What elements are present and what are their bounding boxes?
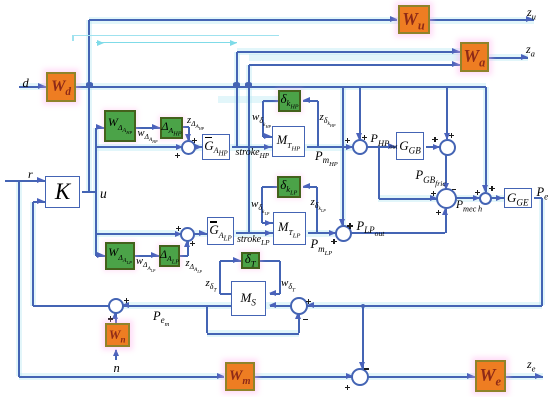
- wire: z_Delta_AHP from Delta_AHP into HP actuator sum: [183, 126, 189, 128]
- label z_Delta_AHP: [187, 116, 204, 130]
- weight W_u (orange): [398, 5, 430, 34]
- wire: d input into W_d: [19, 86, 46, 88]
- wire: W_d drop to gearbox sum (x=447.3): [446, 87, 448, 140]
- wire: W_d drop to HP output sum (x=359.5): [359, 87, 361, 140]
- wire: W_a input 1 y=51.5: [237, 51, 460, 53]
- white block G_GE (generator): [504, 188, 532, 209]
- wire: G_GB output into gearbox sum: [426, 146, 441, 148]
- wire: P_HPout from sum to G_GB: [366, 146, 397, 148]
- white block G_AHP (HP actuator model): [202, 134, 230, 160]
- label P_HPout: [371, 132, 398, 147]
- label z_deltaT: [206, 278, 217, 291]
- wire: W_d drop to LP output sum (x=343): [342, 87, 344, 226]
- wire: LP actuator sum to G_ALP: [193, 233, 207, 235]
- white block M_THP (HP torque map): [272, 126, 305, 157]
- label z_a: [526, 43, 535, 55]
- wire: W_Delta_AHP to Delta_AHP: [136, 127, 160, 129]
- wire glow bands (decorative): [89, 17, 534, 24]
- label P_LPout: [357, 220, 385, 234]
- wire: stroke_LP tap vertical x=248.6: [248, 65, 250, 233]
- uncertainty weight W_Delta_ALP (green): [105, 242, 135, 270]
- label n: [114, 362, 120, 375]
- wire: u into LP actuator sum y=234.3: [96, 233, 183, 235]
- wire: W_u input line y=20: [89, 19, 397, 21]
- white block M_S (shaft dynamics): [231, 281, 266, 316]
- wire: error sum to W_e: [367, 376, 475, 378]
- wire: branch into W_Delta_AHP y=127.5: [96, 127, 104, 129]
- white block G_GB (gearbox friction): [396, 132, 424, 160]
- vertical wire glow bands (decorative): [16, 181, 22, 376]
- wire: n input into W_n: [115, 350, 117, 361]
- label w_delta_kLP: [251, 199, 269, 214]
- label P_mHP: [315, 150, 338, 165]
- wire: W_a input 2 y=65: [249, 64, 460, 66]
- label P_mech: [456, 200, 482, 212]
- label P_em: [153, 310, 169, 325]
- wire: z_deltaT from M_S up into delta_T: [220, 293, 231, 295]
- label P_GBfric: [416, 169, 446, 183]
- label z_Delta_ALP: [186, 259, 202, 273]
- wire: stroke_HP tap vertical x=236.8: [236, 52, 238, 148]
- sum: shaft power balance sum: [290, 297, 308, 315]
- wire: z_deltakLP tap from P_mLP up into delta_kLP: [316, 187, 318, 233]
- label w_delta_kHP: [252, 112, 271, 127]
- wire: stroke_HP from G_AHP to M_THP: [232, 146, 272, 148]
- label w_Delta_AHP: [138, 129, 158, 143]
- label z_e: [527, 358, 536, 370]
- wire: z_e output from W_e: [506, 376, 543, 378]
- label z_u: [527, 6, 536, 18]
- label w_deltaT: [281, 278, 295, 291]
- weight W_e (orange): [475, 360, 506, 392]
- weight W_n (orange): [105, 323, 130, 348]
- white block M_TLP (LP torque map): [273, 212, 306, 245]
- sum: gearbox friction sum: [439, 139, 456, 156]
- sum: measurement noise sum: [108, 298, 124, 314]
- wire: z_a output from W_a: [489, 57, 528, 59]
- wire: P_em measured output from M_S to noise sum: [122, 305, 231, 307]
- label stroke_HP: [236, 148, 270, 158]
- wire: P_mech sum to small sum: [455, 197, 481, 199]
- wire: u into HP actuator sum y=147.3: [96, 146, 184, 148]
- controller K: [45, 176, 80, 208]
- wire: r reference input into K: [5, 180, 45, 182]
- sum: HP actuator input sum: [181, 140, 196, 155]
- wire: P_GBfric from gearbox sum down to P_mech sum: [445, 154, 447, 190]
- weight W_m (orange): [225, 362, 256, 392]
- wire: w_deltaT from delta_T down into M_S: [260, 260, 281, 262]
- wire: stroke_LP from G_ALP to M_TLP: [236, 232, 273, 234]
- sum: generator input small sum: [479, 192, 492, 205]
- label stroke_LP: [237, 235, 269, 245]
- label z_delta_kHP: [320, 112, 336, 127]
- wire: P_e feedback line y=305.8 into shaft sum: [307, 305, 542, 307]
- uncertainty block delta_T (green): [241, 252, 260, 269]
- sum: LP power output sum: [335, 225, 352, 242]
- wire: W_m output into error sum: [255, 376, 353, 378]
- weight W_a (orange): [460, 42, 489, 71]
- wire: u line from K: [82, 191, 96, 193]
- wire: shaft sum output into M_S right side: [270, 305, 293, 307]
- wire: P_HPout branch down to P_mech sum (x=378.6): [378, 147, 380, 199]
- label u: [100, 187, 107, 201]
- wire: P_LPout from sum right and up into P_mech sum: [350, 232, 446, 234]
- label z_delta_kLP: [311, 197, 326, 212]
- label w_Delta_ALP: [136, 257, 155, 271]
- wire: HP actuator sum to G_AHP: [194, 146, 202, 148]
- wire: z_deltakHP tap from P_mHP up into delta_kHP: [317, 101, 319, 147]
- wire: P_e output from G_GE and feedback down: [534, 197, 542, 199]
- wire: W_d output distribution line y=86.5: [76, 86, 486, 88]
- uncertainty block Delta_AHP (green): [160, 117, 183, 139]
- label P_mLP: [311, 238, 333, 253]
- wire: r branch down to W_m: [18, 181, 20, 377]
- white block G_ALP (LP actuator model): [207, 217, 234, 245]
- label P_e: [537, 186, 549, 199]
- wire: W_n output into noise sum: [115, 313, 117, 322]
- wire: w_deltakHP from delta_kHP down into M_THP: [263, 100, 279, 102]
- wire: drop from feedback line to error sum (x=362.5): [362, 306, 364, 369]
- wire: P_mHP from M_THP to HP output sum: [307, 146, 354, 148]
- uncertainty block delta_kHP (green): [278, 90, 301, 112]
- weight W_d (orange): [46, 72, 76, 102]
- sum: tracking error sum: [351, 368, 369, 386]
- label r: [28, 168, 33, 180]
- uncertainty block delta_kLP (green): [277, 176, 302, 198]
- wire: w_deltakLP from delta_kLP down into M_TLP: [262, 186, 277, 188]
- label d: [23, 77, 29, 90]
- wire: u tap up to W_u (vertical x=89.4): [88, 20, 90, 191]
- hop-over crossings on W_d line: [86, 82, 93, 86]
- light cyan artifact line 2 with arrowheads: [96, 42, 237, 44]
- sum: HP power output sum: [352, 139, 368, 155]
- uncertainty weight W_Delta_AHP (green): [104, 110, 136, 142]
- wire: u distribution vertical x=95.7: [95, 128, 97, 256]
- wire: bottom friction feedback loop of M_S: [206, 306, 208, 334]
- wire: small sum to G_GE: [490, 197, 504, 199]
- wire: branch into W_Delta_ALP: [96, 255, 105, 257]
- junction dot on P_e feedback at x=362.5: [361, 304, 365, 308]
- uncertainty block Delta_ALP (green): [159, 245, 180, 267]
- sum: LP actuator input sum: [180, 227, 195, 242]
- wire: z_Delta_ALP from Delta_ALP up into LP actuator sum: [180, 255, 188, 257]
- wire: W_Delta_ALP to Delta_ALP: [135, 255, 159, 257]
- wire: W_d drop to generator sum (x=486): [485, 87, 487, 192]
- wire: feedback from noise sum to controller K: [33, 305, 110, 307]
- sum: P_mech sum: [436, 188, 457, 209]
- light cyan artifact line 1: [73, 35, 279, 37]
- wire: z_u output from W_u: [430, 19, 534, 21]
- wire: P_mLP from M_TLP to LP output sum: [308, 232, 337, 234]
